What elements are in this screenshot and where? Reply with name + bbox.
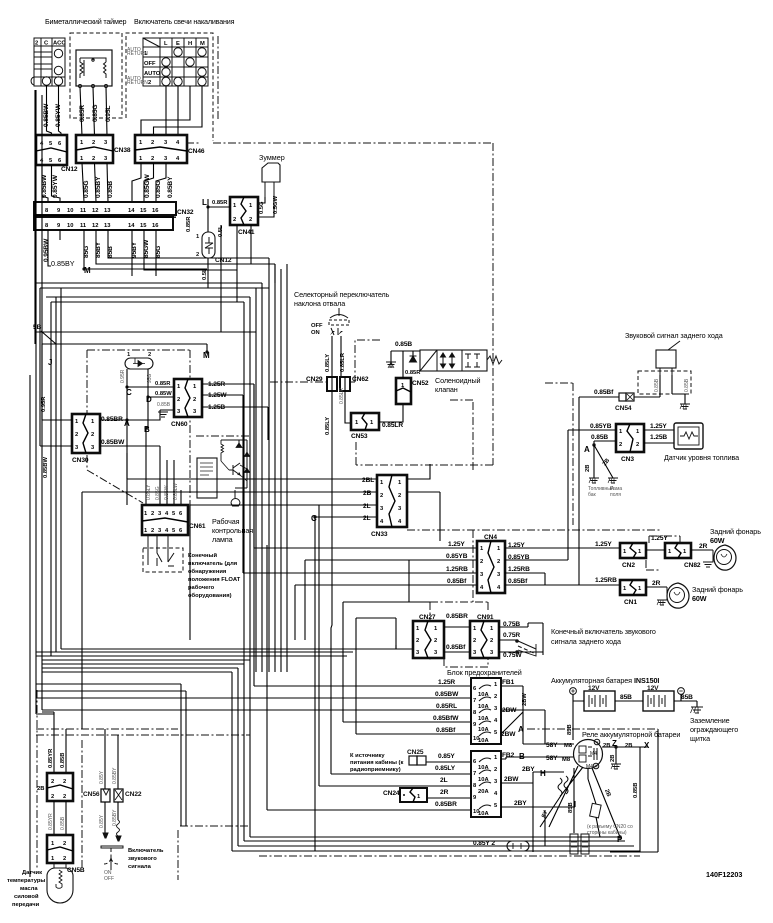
svg-text:0.85Y: 0.85Y [99, 814, 105, 828]
reverse switch symbol [516, 640, 536, 656]
svg-text:7: 7 [473, 771, 476, 777]
wire L to CN41 [208, 199, 230, 232]
svg-text:CN60: CN60 [171, 421, 188, 428]
svg-text:12: 12 [92, 223, 98, 229]
svg-text:2B: 2B [610, 755, 616, 762]
svg-text:CN53: CN53 [351, 433, 368, 440]
svg-text:передачи: передачи [12, 902, 40, 908]
svg-text:наклона отвала: наклона отвала [294, 299, 345, 308]
svg-text:20A: 20A [478, 789, 489, 795]
svg-text:0.85YW: 0.85YW [55, 103, 62, 127]
svg-text:CN91: CN91 [477, 614, 494, 621]
svg-text:2: 2 [196, 252, 199, 258]
svg-text:2B: 2B [603, 743, 610, 749]
svg-text:2BL: 2BL [362, 477, 374, 484]
connector CN27 [413, 614, 444, 658]
wires CN60/C/D to CN61 [127, 397, 181, 505]
connector CN56 [83, 789, 110, 802]
svg-text:2: 2 [148, 80, 151, 86]
svg-text:5B: 5B [33, 324, 42, 331]
wires into CN4 left [295, 560, 477, 640]
svg-text:0.85LR: 0.85LR [382, 422, 403, 429]
svg-text:10A: 10A [478, 777, 489, 783]
svg-text:поля: поля [610, 492, 621, 498]
CN56 / CN22 horn switch [105, 729, 118, 789]
wires into CN3 [594, 441, 616, 445]
wires diode to nodes [127, 369, 148, 420]
svg-text:2: 2 [63, 794, 66, 800]
ground relay [611, 764, 621, 769]
dash-dot verticals right area [545, 383, 573, 525]
svg-text:0.85W: 0.85W [155, 391, 172, 397]
connector CN24 [383, 788, 427, 802]
connector CN3 [616, 424, 644, 463]
connector CN29 [327, 377, 337, 391]
svg-text:2: 2 [91, 432, 94, 438]
svg-text:0.85BW: 0.85BW [43, 457, 49, 478]
wires CN46 to CN32 [132, 163, 141, 202]
svg-text:0.75R: 0.75R [503, 632, 520, 639]
connector CN82 [665, 543, 701, 569]
wires selector to CN29/CN62 [331, 336, 333, 377]
svg-text:0.85B: 0.85B [395, 341, 412, 348]
svg-text:RETURN: RETURN [127, 80, 148, 86]
working control lamp circuit [196, 436, 250, 510]
svg-text:CN46: CN46 [188, 148, 205, 155]
svg-text:2: 2 [151, 140, 154, 146]
svg-text:95G: 95G [147, 373, 153, 383]
svg-text:0.85B: 0.85B [157, 402, 171, 408]
svg-text:E: E [176, 41, 180, 47]
battery wires [573, 694, 697, 740]
connector CN22 [114, 789, 142, 802]
svg-text:0.85GW: 0.85GW [144, 174, 151, 198]
svg-text:CN3: CN3 [621, 456, 634, 463]
svg-text:FB1: FB1 [502, 679, 515, 686]
connector CN41 [230, 197, 258, 236]
svg-text:0.85BY: 0.85BY [167, 176, 174, 198]
svg-text:Соленоидный: Соленоидный [435, 376, 481, 385]
svg-text:2: 2 [51, 794, 54, 800]
svg-text:2: 2 [151, 156, 154, 162]
svg-text:0.95BW: 0.95BW [43, 238, 50, 262]
wire 0.85BR [267, 545, 471, 810]
connector CN52 [396, 378, 429, 404]
ground [386, 362, 396, 368]
svg-text:2: 2 [480, 559, 483, 565]
svg-text:2: 2 [249, 217, 252, 223]
bimetallic timer dashed box [70, 33, 122, 118]
svg-text:2BW: 2BW [502, 707, 517, 714]
connector CN12 (diode) [196, 232, 232, 264]
wire 2R to lamp2 [646, 586, 667, 588]
svg-text:2R: 2R [699, 543, 708, 550]
svg-text:CN5B: CN5B [67, 867, 85, 874]
wire CN41 bottom to bus [236, 225, 238, 270]
svg-text:M4: M4 [590, 751, 597, 757]
svg-text:0.85BR: 0.85BR [446, 613, 468, 620]
svg-text:2: 2 [494, 694, 497, 700]
dash-dot float box [87, 350, 190, 505]
svg-text:ограждающего: ограждающего [690, 725, 738, 734]
svg-text:0.85Y: 0.85Y [99, 770, 105, 784]
svg-text:CN12: CN12 [61, 166, 78, 173]
svg-text:положения FLOAT: положения FLOAT [188, 577, 241, 583]
svg-text:0.85Y: 0.85Y [438, 753, 455, 760]
FB1 box [471, 678, 515, 744]
svg-text:10A: 10A [478, 765, 489, 771]
svg-text:0.85Bf: 0.85Bf [446, 644, 466, 651]
solenoid valve symbol [420, 350, 502, 371]
svg-text:2: 2 [151, 511, 154, 517]
svg-text:2B: 2B [585, 465, 591, 472]
ground shield plate [691, 707, 704, 713]
svg-text:10: 10 [67, 223, 73, 229]
glow plug switch dashed box [126, 33, 213, 141]
svg-text:OFF: OFF [311, 323, 323, 329]
alarm wires [634, 375, 685, 404]
svg-text:CN33: CN33 [371, 531, 388, 538]
svg-text:сигнала: сигнала [128, 864, 152, 870]
svg-text:10A: 10A [478, 811, 489, 817]
temp sensor wires [54, 712, 66, 773]
wires CN12 to CN32 [42, 165, 48, 202]
svg-text:60W: 60W [692, 594, 707, 603]
ground near CN60 [158, 412, 168, 417]
svg-text:сигнала заднего хода: сигнала заднего хода [551, 637, 621, 646]
svg-text:2: 2 [497, 559, 500, 565]
svg-text:85B: 85B [620, 694, 632, 701]
connector CN58 [47, 835, 85, 874]
svg-text:1.25Y: 1.25Y [651, 535, 668, 542]
connector CN25 [407, 749, 426, 765]
svg-text:0.85BY: 0.85BY [112, 767, 118, 784]
svg-text:2: 2 [233, 217, 236, 223]
svg-text:RETURN: RETURN [127, 51, 148, 57]
svg-text:2: 2 [193, 397, 196, 403]
svg-text:10A: 10A [478, 692, 489, 698]
svg-text:0.85BY: 0.85BY [95, 176, 102, 198]
svg-text:обнаружения: обнаружения [188, 568, 226, 575]
connector CN2 [620, 543, 646, 569]
svg-text:CN52: CN52 [412, 380, 429, 387]
svg-text:CN22: CN22 [125, 791, 142, 798]
svg-text:J: J [48, 358, 52, 367]
svg-text:B: B [144, 425, 150, 434]
svg-text:радиоприемнику): радиоприемнику) [350, 767, 401, 773]
svg-text:оборудования): оборудования) [188, 592, 232, 599]
relay right wire Z X [602, 747, 648, 852]
fuel level sensor [674, 423, 703, 449]
wire 0.85Bf [356, 618, 471, 734]
svg-text:85B: 85B [681, 694, 693, 701]
svg-text:Конечный включатель звукового: Конечный включатель звукового [551, 627, 656, 636]
svg-text:FB2: FB2 [502, 752, 515, 759]
wires buzzer to CN41 [258, 197, 265, 203]
svg-text:0.85G: 0.85G [83, 181, 90, 198]
battery 2 [643, 685, 684, 711]
svg-text:0.85YR: 0.85YR [48, 813, 54, 830]
buzzer body [262, 163, 280, 197]
svg-text:M8: M8 [562, 757, 571, 763]
svg-text:15: 15 [140, 208, 147, 214]
connector CN30 [72, 414, 100, 464]
svg-text:13: 13 [104, 223, 111, 229]
connector CN60 [171, 379, 202, 428]
svg-text:масла: масла [20, 886, 38, 892]
battery relay [574, 739, 603, 770]
wire 0.85Y from CN25 [426, 761, 471, 763]
svg-text:0.85R: 0.85R [79, 105, 86, 122]
glow plug switch table [143, 38, 208, 86]
svg-text:10: 10 [67, 208, 73, 214]
dash-dot vertical left [37, 690, 178, 880]
svg-text:0.85G: 0.85G [155, 486, 161, 500]
svg-text:Селекторный переключатель: Селекторный переключатель [294, 290, 390, 299]
wire CN62 down to CN53 [345, 391, 351, 423]
connector CN53 [351, 413, 379, 440]
svg-text:12V: 12V [647, 685, 659, 692]
svg-text:85G: 85G [83, 246, 90, 258]
svg-text:CN4: CN4 [484, 534, 497, 541]
svg-text:CN56: CN56 [83, 791, 100, 798]
svg-text:85B: 85B [567, 724, 573, 735]
rear lamp 1 [703, 545, 736, 570]
svg-text:16: 16 [152, 208, 159, 214]
connector CN62 [340, 377, 350, 391]
connector CN54 [615, 393, 634, 412]
svg-text:2L: 2L [363, 503, 371, 510]
svg-text:11: 11 [80, 223, 87, 229]
svg-text:0.85BY: 0.85BY [51, 259, 75, 268]
connector CN4 [477, 534, 505, 593]
FB1 right wires [501, 686, 574, 744]
svg-text:Датчик уровня топлива: Датчик уровня топлива [664, 453, 739, 462]
wires from A to grounds [594, 445, 613, 478]
connector CN91 [470, 614, 499, 658]
selector toggle symbol [329, 308, 349, 335]
svg-text:питания кабины (к: питания кабины (к [350, 759, 403, 766]
wires glow switch to CN46 [165, 86, 167, 136]
svg-text:0.85B: 0.85B [60, 816, 66, 830]
svg-text:0.85BfW: 0.85BfW [433, 715, 459, 722]
ground frame [608, 478, 618, 483]
svg-text:Включатель: Включатель [128, 848, 164, 854]
svg-text:140F12203: 140F12203 [706, 870, 742, 879]
wire 2R from CN24 [427, 797, 471, 799]
svg-text:ON: ON [311, 330, 320, 336]
diode capsule top [125, 352, 153, 369]
svg-text:C: C [311, 514, 317, 523]
svg-text:CN38: CN38 [114, 147, 131, 154]
svg-text:L: L [164, 41, 168, 47]
svg-text:Заземление: Заземление [690, 716, 730, 725]
svg-text:0.85LY: 0.85LY [325, 354, 331, 372]
svg-text:0.85B: 0.85B [654, 378, 660, 392]
ground fuel tank [589, 478, 599, 483]
svg-text:0.85LR: 0.85LR [339, 387, 345, 404]
svg-text:0.85B: 0.85B [633, 783, 639, 798]
svg-text:Задний фонарь: Задний фонарь [692, 585, 743, 594]
svg-text:85B: 85B [568, 802, 574, 813]
svg-text:0.85YB: 0.85YB [446, 553, 468, 560]
svg-text:2L: 2L [363, 515, 371, 522]
wire through capsule [529, 810, 545, 846]
svg-text:0.85Bf: 0.85Bf [436, 727, 456, 734]
svg-text:0.85W: 0.85W [164, 485, 170, 500]
bimetallic timer body [76, 50, 112, 88]
wires CN60 right [202, 384, 477, 573]
svg-text:0.85LR: 0.85LR [340, 352, 346, 372]
svg-text:Реле аккумуляторной батареи: Реле аккумуляторной батареи [582, 730, 680, 739]
svg-text:0.85B: 0.85B [684, 378, 690, 392]
svg-text:OFF: OFF [104, 876, 114, 882]
svg-text:Зуммер: Зуммер [259, 153, 285, 162]
svg-text:CN1: CN1 [624, 599, 637, 606]
connector CN12 [36, 135, 78, 173]
temp sensor body [47, 863, 73, 903]
svg-text:К источнику: К источнику [350, 753, 385, 759]
svg-text:1.25Y: 1.25Y [448, 541, 465, 548]
svg-text:10A: 10A [478, 716, 489, 722]
wire 2R to lamp1 [691, 549, 713, 551]
svg-text:0.85R: 0.85R [186, 216, 192, 232]
svg-text:Аккумуляторная батарея: Аккумуляторная батарея [551, 676, 632, 685]
svg-text:0.85LW: 0.85LW [173, 483, 179, 500]
svg-text:2BY: 2BY [514, 800, 527, 807]
svg-text:2: 2 [148, 352, 151, 358]
wires CN91 right + switch [499, 623, 543, 655]
svg-text:2R: 2R [652, 580, 661, 587]
wire CN53 to CN52 [379, 404, 403, 422]
wire bottom bus [232, 672, 640, 851]
wires CN3 to sensor [644, 430, 674, 443]
wires below CN32 [48, 230, 51, 266]
svg-text:Задний фонарь: Задний фонарь [710, 527, 761, 536]
wires into CN30 [42, 344, 72, 420]
svg-text:2: 2 [416, 638, 419, 644]
svg-text:16: 16 [152, 223, 159, 229]
connector CN1 [620, 580, 646, 606]
svg-text:Конечный: Конечный [188, 552, 217, 559]
svg-text:OFF: OFF [144, 61, 156, 67]
svg-text:13: 13 [104, 208, 111, 214]
svg-text:7: 7 [473, 698, 476, 704]
svg-text:Звуковой сигнал заднего хода: Звуковой сигнал заднего хода [625, 331, 723, 340]
svg-text:15: 15 [140, 223, 147, 229]
svg-text:1.25RB: 1.25RB [595, 577, 617, 584]
svg-text:2: 2 [75, 432, 78, 438]
svg-text:Включатель свечи накаливания: Включатель свечи накаливания [134, 17, 235, 26]
connector CN61 [142, 505, 206, 535]
svg-text:0.95L: 0.95L [105, 106, 112, 122]
svg-text:2: 2 [63, 856, 66, 862]
alarm body [656, 341, 680, 375]
svg-text:1.25Y: 1.25Y [650, 423, 667, 430]
dashed box around CN27/CN91 [430, 602, 488, 667]
svg-text:0.75W: 0.75W [503, 652, 522, 659]
svg-text:2: 2 [63, 779, 66, 785]
svg-text:бак: бак [588, 492, 597, 498]
svg-text:Рабочая: Рабочая [212, 517, 240, 526]
svg-text:CN54: CN54 [615, 405, 632, 412]
svg-text:0.85BW: 0.85BW [435, 691, 459, 698]
small fusible box [590, 803, 602, 818]
svg-text:H: H [188, 41, 192, 47]
float limit switch dashed box [143, 535, 183, 572]
svg-text:10A: 10A [478, 727, 489, 733]
svg-text:0.85B: 0.85B [591, 434, 608, 441]
svg-text:0.85BR: 0.85BR [435, 801, 457, 808]
svg-text:звукового: звукового [128, 856, 157, 862]
svg-text:H: H [540, 769, 546, 778]
svg-text:0.85RL: 0.85RL [436, 703, 457, 710]
wires CN38 to CN32 [82, 163, 84, 202]
battery 1 [570, 685, 615, 711]
dashed boundary of selector section [281, 385, 493, 465]
relay enclosure [610, 729, 658, 852]
svg-text:щитка: щитка [690, 734, 710, 743]
svg-text:1.25R: 1.25R [438, 679, 455, 686]
svg-text:Z: Z [612, 739, 617, 748]
svg-text:L: L [202, 198, 207, 207]
svg-text:60W: 60W [710, 536, 725, 545]
svg-text:0.85R: 0.85R [212, 200, 228, 206]
wires CN2-CN82 and 1.25Y jumper [646, 549, 665, 551]
svg-text:M8: M8 [564, 743, 573, 749]
wires CN27 to CN91 [444, 627, 470, 652]
svg-text:лампа: лампа [212, 535, 233, 544]
diode (solenoid clamp) [410, 356, 417, 362]
FB2 box [471, 751, 515, 817]
svg-text:2: 2 [35, 41, 38, 47]
svg-text:2: 2 [619, 442, 622, 448]
svg-text:85B: 85B [107, 246, 114, 258]
svg-text:рабочего: рабочего [188, 584, 215, 591]
big outline [42, 344, 207, 352]
svg-text:85BY: 85BY [95, 241, 102, 258]
dashed A line [527, 728, 658, 730]
svg-text:0.85Y 2: 0.85Y 2 [473, 840, 495, 847]
svg-text:0.85B: 0.85B [60, 753, 66, 768]
wire 2L [319, 505, 471, 786]
svg-text:0.85LY: 0.85LY [325, 417, 331, 435]
svg-text:2: 2 [380, 493, 383, 499]
svg-text:14: 14 [128, 208, 135, 214]
rear lamp 2 [657, 583, 689, 608]
wire CN12diode down [208, 225, 269, 332]
svg-text:0.85R: 0.85R [405, 370, 421, 376]
svg-text:CN82: CN82 [684, 562, 701, 569]
FB2 right wires [501, 757, 575, 852]
svg-text:CN61: CN61 [189, 523, 206, 530]
key switch connector table [31, 38, 65, 86]
svg-text:2BW: 2BW [522, 693, 528, 706]
wire bus [35, 282, 262, 284]
svg-text:2: 2 [434, 638, 437, 644]
svg-text:1.25B: 1.25B [650, 434, 667, 441]
svg-text:2BW: 2BW [501, 731, 516, 738]
wire 1.25R [254, 685, 471, 687]
svg-text:10A: 10A [478, 704, 489, 710]
svg-text:2: 2 [494, 767, 497, 773]
wires timer to CN38 [80, 87, 82, 136]
svg-text:2L: 2L [440, 777, 448, 784]
svg-text:2: 2 [51, 779, 54, 785]
svg-text:14: 14 [128, 223, 135, 229]
svg-text:A: A [584, 445, 590, 454]
connector 2B pair [37, 773, 73, 801]
